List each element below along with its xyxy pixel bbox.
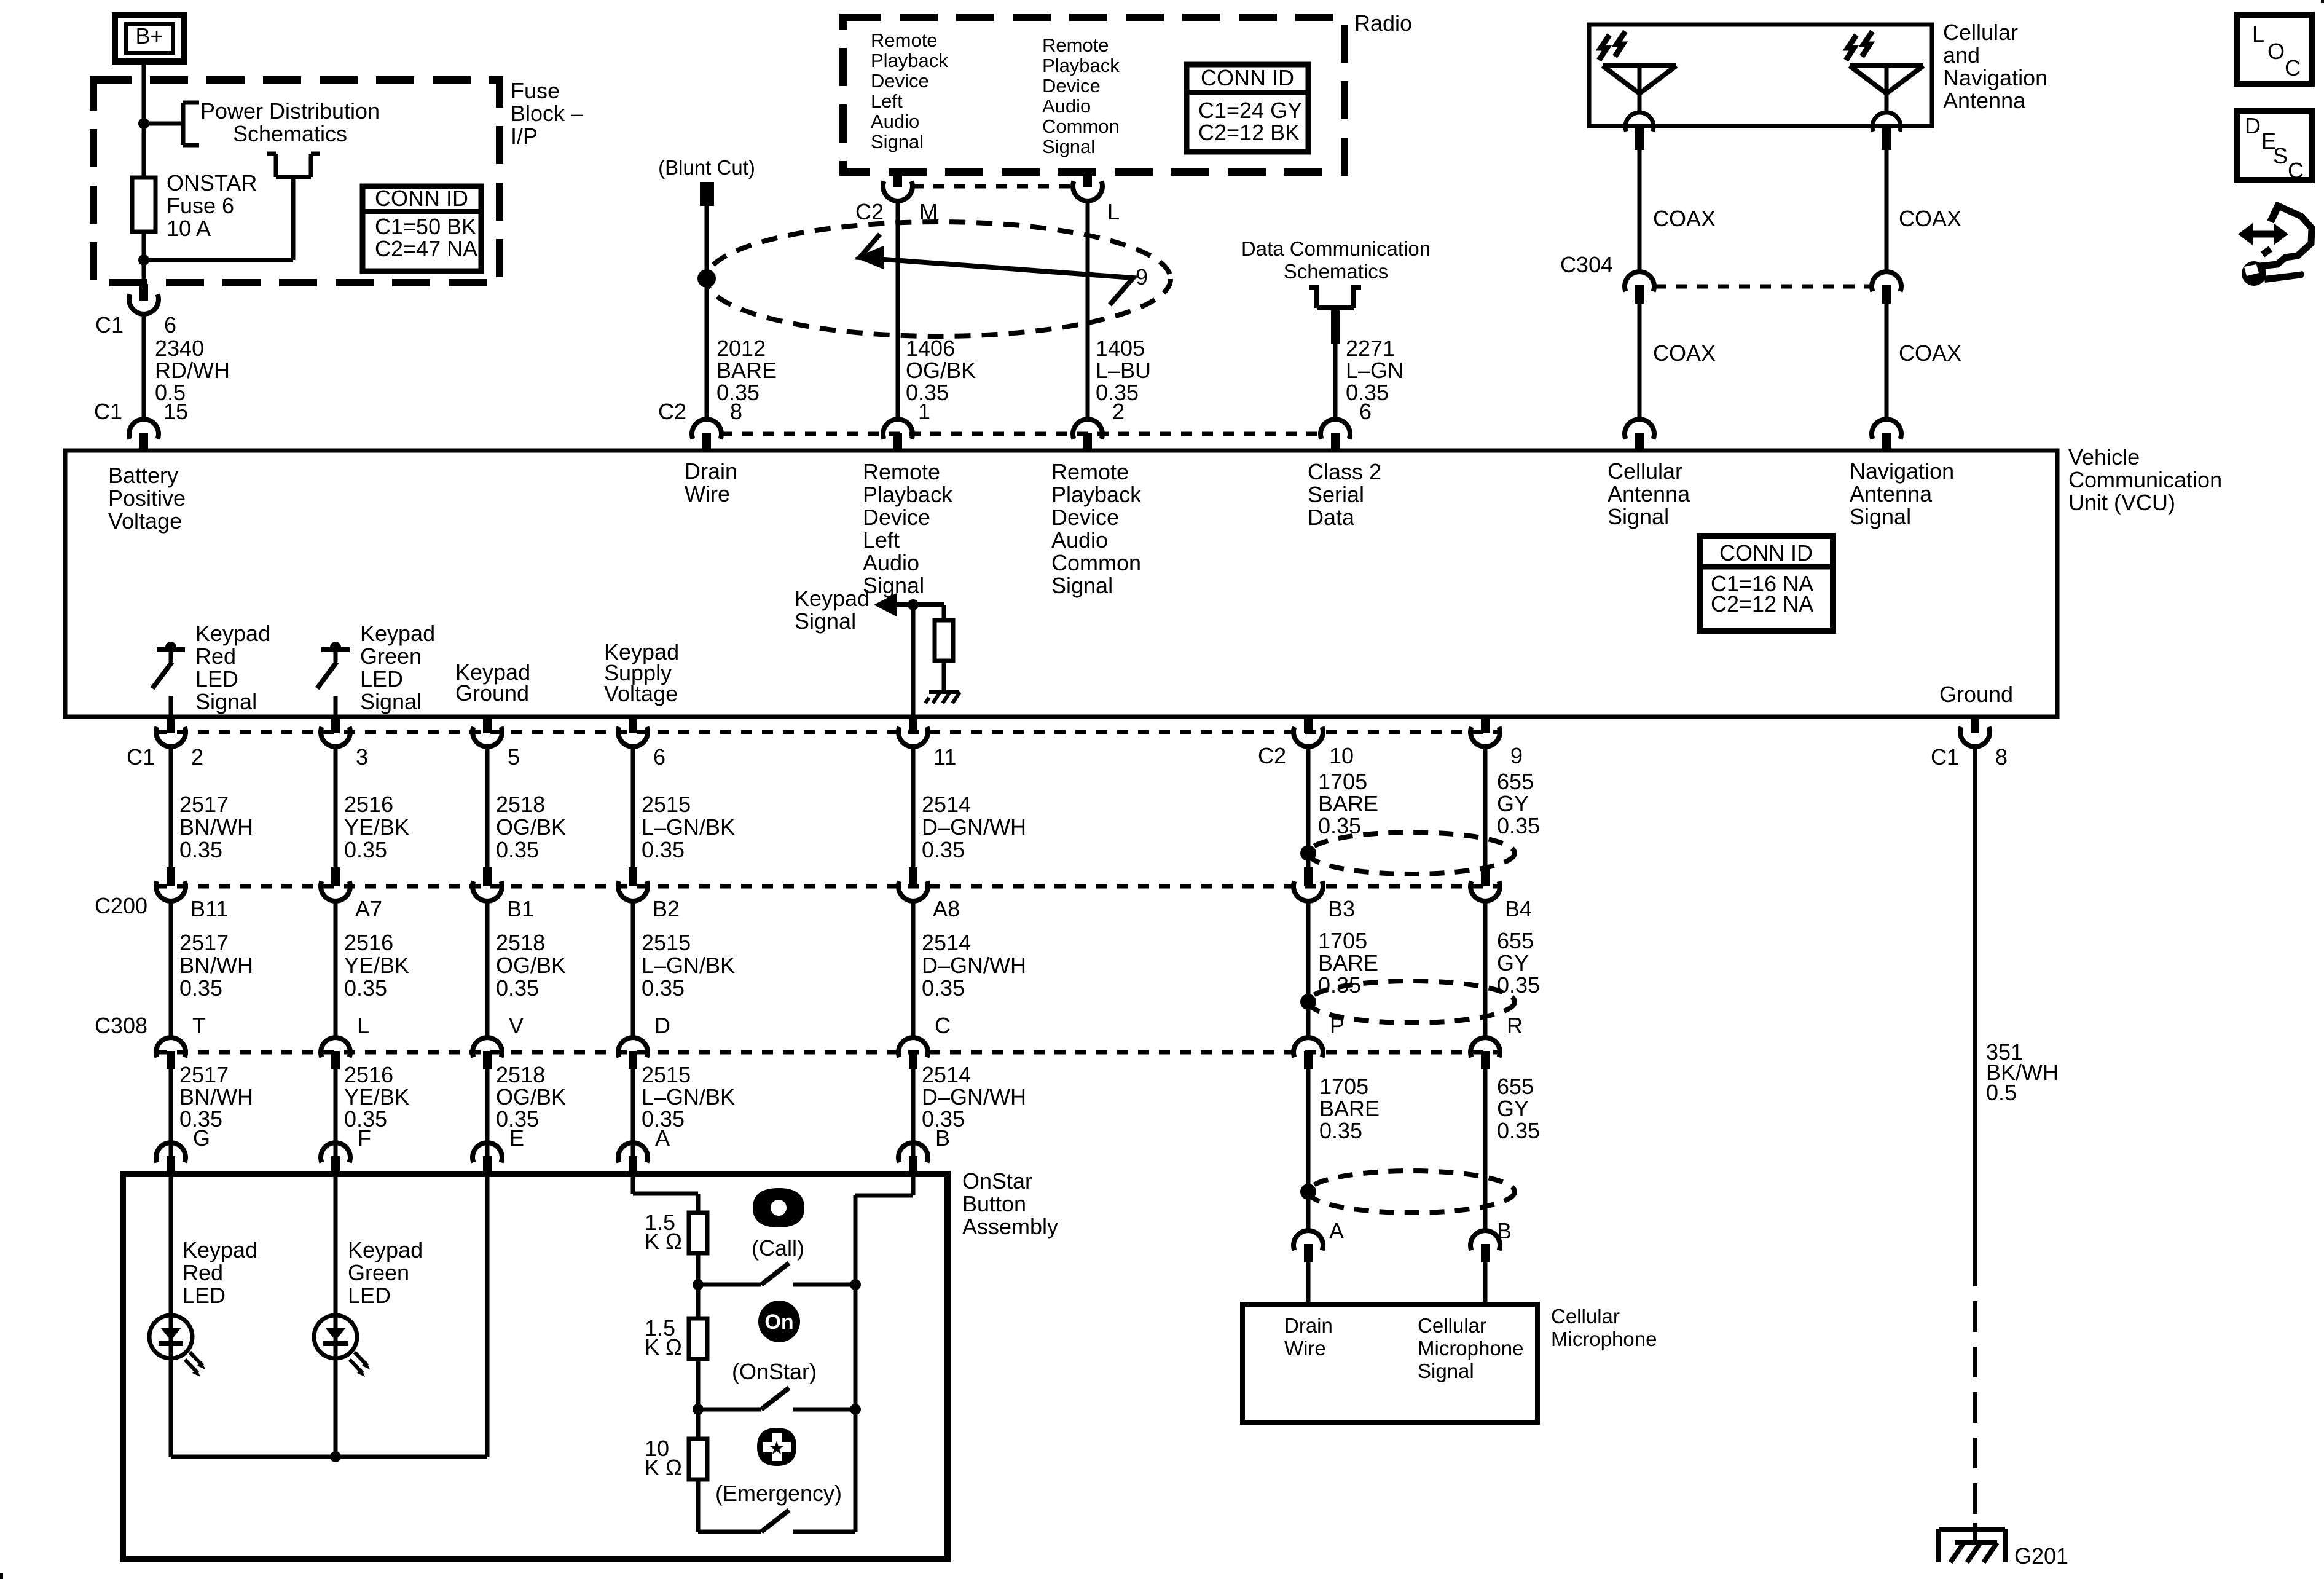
label C308 pin T xyxy=(192,1013,206,1038)
svg-text:8: 8 xyxy=(730,399,742,424)
label (Call) xyxy=(752,1235,804,1261)
label COAX navigation lower xyxy=(1899,341,1961,366)
svg-text:2340: 2340 xyxy=(155,336,204,361)
svg-text:2516: 2516 xyxy=(344,1062,393,1087)
svg-text:Antenna: Antenna xyxy=(1943,88,2026,113)
label onstar pin G xyxy=(193,1125,210,1151)
svg-text:0.35: 0.35 xyxy=(179,837,222,862)
svg-text:Common: Common xyxy=(1051,550,1141,575)
svg-text:B+: B+ xyxy=(135,23,163,49)
svg-text:1: 1 xyxy=(918,399,930,424)
label keypad signal xyxy=(795,586,870,634)
wire 2271 class2 to VCU xyxy=(1331,310,1340,421)
junction dot call row left xyxy=(693,1279,704,1290)
svg-text:Device: Device xyxy=(871,70,929,92)
svg-text:Power Distribution: Power Distribution xyxy=(200,98,380,124)
coax wire navigation lower xyxy=(1885,304,1889,421)
svg-text:O: O xyxy=(2267,39,2285,64)
svg-text:Remote: Remote xyxy=(1051,459,1129,484)
svg-text:C2: C2 xyxy=(1258,743,1286,768)
keypad signal arrow xyxy=(874,593,944,616)
fuse F ONSTAR Fuse 6 10A xyxy=(132,178,155,232)
wire label 1705 BARE row3 xyxy=(1319,1074,1380,1143)
connector mic B xyxy=(1470,1231,1500,1262)
label 1.5 K ohm onstar xyxy=(645,1315,682,1360)
svg-text:Signal: Signal xyxy=(871,131,924,152)
connector onstar pin E xyxy=(473,1143,502,1174)
svg-text:Green: Green xyxy=(348,1260,409,1285)
svg-text:Data: Data xyxy=(1308,505,1355,530)
wire call row left xyxy=(698,1283,761,1287)
svg-text:1705: 1705 xyxy=(1318,928,1367,953)
wire fuse to fuse block edge xyxy=(142,232,146,284)
svg-text:Device: Device xyxy=(1051,505,1119,530)
connector C308-R xyxy=(1470,1038,1500,1069)
svg-text:Signal: Signal xyxy=(863,573,924,598)
svg-text:0.35: 0.35 xyxy=(1497,813,1540,838)
label C2 bottom xyxy=(1258,743,1286,768)
wire ladder r2 to r3 xyxy=(696,1409,701,1439)
svg-text:(Blunt Cut): (Blunt Cut) xyxy=(658,156,755,179)
wire label 2271 L-GN 0.35 xyxy=(1346,336,1403,405)
svg-text:2514: 2514 xyxy=(922,1062,971,1087)
svg-text:Assembly: Assembly xyxy=(962,1214,1058,1239)
wire 2515 VCU to C200 xyxy=(631,746,635,867)
wire 2514 VCU to C200 xyxy=(911,746,916,867)
svg-text:Remote: Remote xyxy=(871,30,938,51)
twisted shield ellipse row2 xyxy=(1308,981,1515,1023)
label COAX navigation upper xyxy=(1899,206,1961,231)
svg-text:1705: 1705 xyxy=(1318,769,1367,794)
svg-text:CONN ID: CONN ID xyxy=(1719,540,1813,565)
label C1 bottom xyxy=(127,744,155,770)
svg-text:A: A xyxy=(655,1125,670,1151)
wire label 655 GY row3 xyxy=(1497,1074,1540,1143)
label pin 3 bottom xyxy=(356,744,368,770)
coax wire cellular upper xyxy=(1638,150,1642,272)
label onstar pin F xyxy=(358,1125,371,1151)
svg-text:GY: GY xyxy=(1497,1096,1529,1121)
svg-text:OnStar: OnStar xyxy=(962,1168,1032,1194)
svg-text:Ground: Ground xyxy=(455,680,529,706)
label C308 pin V xyxy=(509,1013,524,1038)
wire label 2515 L&#8211;GN/BK 0.35 row3 xyxy=(642,1062,735,1132)
wire keypad signal to pin 11 xyxy=(911,605,916,715)
coax wire cellular lower xyxy=(1638,304,1642,421)
label C200 pin B11 xyxy=(190,896,228,921)
svg-text:Block –: Block – xyxy=(511,101,583,126)
label pin L xyxy=(1107,199,1120,224)
svg-text:Class 2: Class 2 xyxy=(1308,459,1381,484)
wire label 655 GY row1 xyxy=(1497,769,1540,838)
svg-text:Left: Left xyxy=(863,527,900,553)
svg-text:2514: 2514 xyxy=(922,930,971,955)
svg-text:C: C xyxy=(2285,55,2301,81)
wire 2517 VCU to C200 xyxy=(169,746,173,867)
svg-text:2514: 2514 xyxy=(922,792,971,817)
svg-text:(Emergency): (Emergency) xyxy=(715,1481,842,1506)
wire mic signal into mic box xyxy=(1483,1261,1488,1306)
wire 1705 C200 to C308 xyxy=(1306,900,1311,1038)
svg-text:K Ω: K Ω xyxy=(645,1455,682,1480)
svg-text:Navigation: Navigation xyxy=(1943,65,2047,90)
wire label 2517 BN/WH 0.35 row2 xyxy=(179,930,253,1001)
connector C308-T xyxy=(156,1038,186,1069)
connector C1-6 at VCU bottom xyxy=(618,717,648,747)
svg-text:Microphone: Microphone xyxy=(1418,1337,1523,1360)
svg-text:Red: Red xyxy=(195,644,236,669)
svg-text:D: D xyxy=(654,1013,670,1038)
label C200 pin B2 xyxy=(653,896,680,921)
svg-text:G201: G201 xyxy=(2014,1543,2068,1569)
wire label 2517 BN/WH 0.35 row3 xyxy=(179,1062,253,1132)
svg-text:D–GN/WH: D–GN/WH xyxy=(922,1084,1026,1109)
connector C308-C xyxy=(898,1038,928,1069)
junction dot keypad signal xyxy=(908,599,919,610)
coax wire navigation upper xyxy=(1885,150,1889,272)
svg-text:On: On xyxy=(764,1310,793,1334)
svg-text:6: 6 xyxy=(1359,399,1372,424)
CONN ID table fuse block xyxy=(363,186,481,271)
svg-text:Left: Left xyxy=(871,90,903,112)
wire 2517 C308 to OnStar buttons xyxy=(169,1069,173,1156)
svg-text:BN/WH: BN/WH xyxy=(179,1084,253,1109)
label pin 2 xyxy=(1112,399,1125,424)
wire label 2518 OG/BK 0.35 row2 xyxy=(496,930,566,1001)
label C308 pin L xyxy=(357,1013,369,1038)
svg-text:Serial: Serial xyxy=(1308,482,1364,507)
label C308 pin D xyxy=(654,1013,670,1038)
connector C1-5 at VCU bottom xyxy=(473,717,502,747)
off-page bracket Data Communication xyxy=(1309,286,1361,308)
svg-text:Keypad: Keypad xyxy=(183,1237,257,1262)
label Power Distribution Schematics xyxy=(200,98,380,146)
svg-text:655: 655 xyxy=(1497,1074,1534,1099)
connector onstar pin G xyxy=(156,1143,186,1174)
connector C1-15 at VCU top xyxy=(129,419,159,451)
label mic pin A xyxy=(1329,1218,1344,1243)
svg-text:0.35: 0.35 xyxy=(1318,813,1361,838)
wire label 2012 BARE 0.35 xyxy=(716,336,777,405)
label Cellular and Navigation Antenna xyxy=(1943,20,2047,113)
label 10 K ohm emergency xyxy=(645,1436,682,1480)
label Radio xyxy=(1354,10,1412,36)
svg-text:C1=50 BK: C1=50 BK xyxy=(375,214,476,239)
svg-text:0.35: 0.35 xyxy=(496,837,539,862)
wire label 1705 BARE row1 xyxy=(1318,769,1378,838)
svg-text:B11: B11 xyxy=(190,896,228,921)
svg-text:0.35: 0.35 xyxy=(642,837,685,862)
svg-text:LED: LED xyxy=(348,1283,391,1308)
svg-text:0.35: 0.35 xyxy=(344,837,387,862)
label Data Communication Schematics xyxy=(1241,237,1431,283)
svg-text:Fuse 6: Fuse 6 xyxy=(167,193,234,218)
switch emergency xyxy=(761,1510,855,1532)
svg-text:B2: B2 xyxy=(653,896,680,921)
label remote playback left audio signal VCU xyxy=(863,459,953,598)
wire 2514 C308 to OnStar buttons xyxy=(911,1069,916,1156)
antenna module box cellular and navigation xyxy=(1589,25,1932,126)
antenna symbol navigation xyxy=(1846,31,1923,150)
svg-text:OG/BK: OG/BK xyxy=(496,814,566,840)
LED keypad red xyxy=(149,1174,205,1457)
svg-text:P: P xyxy=(1330,1013,1345,1038)
svg-text:B: B xyxy=(935,1125,950,1151)
svg-text:5: 5 xyxy=(508,744,520,770)
svg-text:RD/WH: RD/WH xyxy=(155,358,230,383)
svg-text:Vehicle: Vehicle xyxy=(2068,444,2140,470)
svg-text:Remote: Remote xyxy=(1042,34,1109,56)
label OnStar Button Assembly xyxy=(962,1168,1058,1239)
svg-text:Data Communication: Data Communication xyxy=(1241,237,1431,260)
label pin 5 bottom xyxy=(508,744,520,770)
svg-text:Positive: Positive xyxy=(108,486,186,511)
svg-text:Microphone: Microphone xyxy=(1551,1328,1657,1350)
label (OnStar) xyxy=(732,1359,817,1384)
svg-text:B4: B4 xyxy=(1505,896,1532,921)
switch call xyxy=(761,1263,855,1285)
label keypad supply voltage VCU xyxy=(604,639,679,706)
svg-text:GY: GY xyxy=(1497,950,1529,975)
connector C2-M at radio bottom xyxy=(883,172,913,201)
label C304 xyxy=(1560,252,1613,277)
label pin 8 ground xyxy=(1995,744,2008,770)
connector C308-V xyxy=(473,1038,502,1069)
label C308 pin R xyxy=(1507,1013,1523,1038)
svg-text:C2=12 BK: C2=12 BK xyxy=(1198,120,1300,145)
fuse block dashed outline Fuse Block I/P xyxy=(93,80,500,283)
connector C308-P xyxy=(1294,1038,1323,1069)
junction dot onstar row right xyxy=(850,1404,861,1415)
junction dot shield row2 xyxy=(1300,994,1316,1010)
svg-text:D: D xyxy=(2245,113,2261,138)
label Fuse Block I/P xyxy=(511,78,583,149)
shield reference arrow 9 xyxy=(855,234,1133,305)
keypad green LED driver symbol xyxy=(317,642,350,715)
label pin 11 bottom xyxy=(933,744,956,770)
svg-text:2517: 2517 xyxy=(179,1062,229,1087)
svg-text:1705: 1705 xyxy=(1319,1074,1368,1099)
wire label 351 BK/WH 0.5 xyxy=(1986,1039,2059,1105)
connector C308-L xyxy=(321,1038,350,1069)
wire resistor2 to junction xyxy=(696,1359,701,1409)
svg-text:0.35: 0.35 xyxy=(344,975,387,1001)
svg-text:Voltage: Voltage xyxy=(604,681,678,706)
svg-text:BARE: BARE xyxy=(716,358,777,383)
svg-text:Antenna: Antenna xyxy=(1608,481,1690,506)
wire label 2514 D&#8211;GN/WH 0.35 row1 xyxy=(922,792,1026,862)
svg-text:Playback: Playback xyxy=(1042,55,1120,76)
svg-text:(Call): (Call) xyxy=(752,1235,804,1261)
svg-text:Signal: Signal xyxy=(360,689,422,714)
svg-text:2515: 2515 xyxy=(642,930,691,955)
wire 1705 C308 to mic connector xyxy=(1306,1069,1311,1231)
svg-text:OG/BK: OG/BK xyxy=(906,358,976,383)
svg-text:(OnStar): (OnStar) xyxy=(732,1359,817,1384)
svg-text:0.35: 0.35 xyxy=(1497,972,1540,998)
radio dashed outline xyxy=(843,17,1345,172)
svg-text:E: E xyxy=(509,1125,524,1151)
dashed connector line C200 xyxy=(156,884,1502,889)
legend box DESC xyxy=(2237,111,2312,183)
svg-text:2: 2 xyxy=(191,744,203,770)
svg-text:D–GN/WH: D–GN/WH xyxy=(922,814,1026,840)
svg-text:YE/BK: YE/BK xyxy=(344,953,409,978)
svg-text:2517: 2517 xyxy=(179,792,229,817)
svg-text:OG/BK: OG/BK xyxy=(496,953,566,978)
svg-text:2012: 2012 xyxy=(716,336,766,361)
svg-text:Wire: Wire xyxy=(685,481,730,506)
svg-text:6: 6 xyxy=(653,744,665,770)
ground G201 symbol xyxy=(1939,1529,2005,1562)
label ground VCU xyxy=(1939,682,2013,707)
connector C200-A8 xyxy=(898,867,928,901)
connector C1-2 at VCU bottom xyxy=(156,717,186,747)
svg-text:Common: Common xyxy=(1042,116,1120,137)
label Blunt Cut xyxy=(658,156,755,179)
svg-text:L–GN/BK: L–GN/BK xyxy=(642,1084,735,1109)
wire label 2514 D&#8211;GN/WH 0.35 row2 xyxy=(922,930,1026,1001)
connector C2-L at radio bottom xyxy=(1073,172,1102,201)
svg-text:Ground: Ground xyxy=(1939,682,2013,707)
label 1.5 K ohm call xyxy=(645,1210,682,1254)
svg-text:A7: A7 xyxy=(355,896,382,921)
svg-text:BARE: BARE xyxy=(1318,791,1378,816)
cellular microphone box xyxy=(1242,1304,1537,1422)
svg-text:0.35: 0.35 xyxy=(922,837,965,862)
svg-text:L: L xyxy=(357,1013,369,1038)
wire 2012 drain blunt cut to VCU xyxy=(705,206,709,421)
resistor 10K emergency xyxy=(689,1439,707,1479)
svg-text:2515: 2515 xyxy=(642,792,691,817)
svg-text:OG/BK: OG/BK xyxy=(496,1084,566,1109)
wire into G201 xyxy=(1973,1523,1977,1544)
svg-text:Navigation: Navigation xyxy=(1850,459,1954,484)
svg-text:Audio: Audio xyxy=(871,111,919,132)
wire label 2518 OG/BK 0.35 row3 xyxy=(496,1062,566,1132)
legend box LOC xyxy=(2237,15,2312,84)
label C200 pin B3 xyxy=(1328,896,1355,921)
wire junction to power distribution bracket xyxy=(144,122,183,126)
wire 2518 VCU to C200 xyxy=(485,746,490,867)
label keypad green LED signal xyxy=(360,621,435,714)
svg-text:D–GN/WH: D–GN/WH xyxy=(922,953,1026,978)
label C1 pin 15 xyxy=(94,399,188,424)
label mic pin B xyxy=(1497,1218,1512,1243)
svg-text:Audio: Audio xyxy=(863,550,919,575)
wire 2514 C200 to C308 xyxy=(911,900,916,1038)
connector onstar pin F xyxy=(321,1143,350,1174)
wire label 2518 OG/BK 0.35 row1 xyxy=(496,792,566,862)
junction dot fuse output xyxy=(138,254,149,266)
scan artifact speck top right xyxy=(2321,0,2324,3)
connector C308-D xyxy=(618,1038,648,1069)
svg-text:Signal: Signal xyxy=(1051,573,1113,598)
svg-text:L: L xyxy=(2252,22,2264,47)
svg-text:V: V xyxy=(509,1013,524,1038)
junction dot shield row1 xyxy=(1300,845,1316,861)
label cellular antenna signal VCU xyxy=(1608,459,1690,529)
label (Emergency) xyxy=(715,1481,842,1506)
svg-text:10: 10 xyxy=(1329,743,1354,768)
svg-text:C2: C2 xyxy=(658,399,686,424)
label G201 xyxy=(2014,1543,2068,1569)
svg-text:2515: 2515 xyxy=(642,1062,691,1087)
connector C1-8 at VCU bottom xyxy=(1960,717,1990,747)
svg-text:Button: Button xyxy=(962,1191,1026,1216)
svg-text:L–GN: L–GN xyxy=(1346,358,1403,383)
label keypad red LED xyxy=(183,1237,257,1308)
svg-text:Keypad: Keypad xyxy=(360,621,435,646)
wire bracket down and left to battery wire xyxy=(144,177,293,260)
svg-text:Fuse: Fuse xyxy=(511,78,560,103)
svg-text:15: 15 xyxy=(163,399,188,424)
wire 2516 C200 to C308 xyxy=(334,900,338,1038)
svg-text:3: 3 xyxy=(356,744,368,770)
svg-text:B3: B3 xyxy=(1328,896,1355,921)
scan artifact speck bottom left xyxy=(0,1573,3,1579)
label remote playback device left audio signal xyxy=(871,30,948,152)
resistor 1.5K call xyxy=(689,1213,707,1253)
keypad red LED driver symbol xyxy=(152,642,185,715)
svg-text:BARE: BARE xyxy=(1319,1096,1380,1121)
svg-text:C1: C1 xyxy=(94,399,122,424)
svg-text:★: ★ xyxy=(769,1438,785,1459)
svg-text:GY: GY xyxy=(1497,791,1529,816)
svg-text:0.35: 0.35 xyxy=(179,975,222,1001)
svg-text:COAX: COAX xyxy=(1899,341,1961,366)
svg-text:Keypad: Keypad xyxy=(195,621,270,646)
resistor 1.5K onstar xyxy=(689,1318,707,1359)
svg-text:LED: LED xyxy=(183,1283,226,1308)
svg-text:Cellular: Cellular xyxy=(1418,1314,1486,1337)
wire emergency row left xyxy=(698,1530,761,1534)
svg-text:Device: Device xyxy=(1042,75,1101,96)
label C1 pin 6 xyxy=(95,312,176,337)
connector pin1 at VCU top xyxy=(883,419,913,451)
svg-text:CONN ID: CONN ID xyxy=(375,186,468,211)
connector cellular antenna at VCU top xyxy=(1625,419,1654,451)
label battery positive voltage xyxy=(108,463,186,534)
junction dot LED bus xyxy=(330,1451,341,1462)
svg-text:Schematics: Schematics xyxy=(1284,260,1389,283)
connector C304 navigation xyxy=(1872,272,1901,304)
icon emergency button xyxy=(757,1428,796,1466)
svg-text:Voltage: Voltage xyxy=(108,508,182,534)
svg-text:Keypad: Keypad xyxy=(348,1237,423,1262)
junction dot on battery wire xyxy=(138,118,149,129)
connector onstar pin B xyxy=(898,1143,928,1174)
wire right branch call to onstar xyxy=(854,1285,858,1409)
CONN ID table radio xyxy=(1187,65,1308,152)
svg-text:B1: B1 xyxy=(507,896,534,921)
svg-text:Drain: Drain xyxy=(685,459,737,484)
wire resistor1 to junction xyxy=(696,1253,701,1285)
blunt cut terminal xyxy=(700,182,714,206)
label remote playback audio common signal VCU xyxy=(1051,459,1142,598)
svg-text:S: S xyxy=(2273,143,2288,168)
svg-text:Schematics: Schematics xyxy=(233,121,347,146)
svg-text:2516: 2516 xyxy=(344,792,393,817)
svg-text:CONN ID: CONN ID xyxy=(1201,65,1294,90)
connector C200-B3 xyxy=(1294,867,1323,901)
label cellular microphone signal xyxy=(1418,1314,1523,1382)
svg-text:C2: C2 xyxy=(855,199,884,224)
wire 2518 C308 to OnStar buttons xyxy=(485,1069,490,1156)
svg-text:C: C xyxy=(2288,158,2304,183)
svg-text:C1=24 GY: C1=24 GY xyxy=(1198,98,1302,123)
svg-text:L: L xyxy=(1107,199,1120,224)
